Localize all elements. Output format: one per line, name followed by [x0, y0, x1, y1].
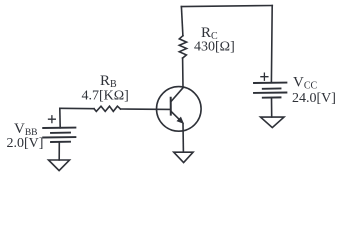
ground (Vcc)	[261, 117, 285, 128]
wire emitter to ground	[182, 124, 184, 152]
battery V_BB plate long top	[43, 127, 75, 129]
svg-text:430[Ω]: 430[Ω]	[194, 40, 235, 55]
svg-text:RB: RB	[100, 73, 117, 90]
wire base left segment from Vbb stub	[60, 107, 94, 109]
wire Vcc battery to ground	[271, 98, 273, 117]
wire base right segment to transistor	[121, 108, 157, 110]
transistor Q1 emitter diagonal with arrow	[171, 111, 181, 121]
wire right vertical to Vcc battery	[270, 6, 273, 83]
battery V_CC plate long bottom	[254, 92, 286, 94]
wire Vbb stub vertical	[59, 108, 61, 128]
battery V_CC plate long top	[254, 82, 286, 84]
ground (emitter)	[174, 152, 193, 162]
battery V_CC plate short bottom	[263, 96, 281, 98]
transistor Q1 base lead inside circle	[156, 108, 170, 110]
plus sign V_CC	[261, 73, 268, 80]
transistor Q1 base bar	[170, 98, 172, 115]
resistor R_C zigzag	[179, 36, 186, 58]
wire collector branch upper (corner to Rc)	[181, 7, 183, 36]
wire top horizontal (Vcc rail)	[181, 6, 272, 7]
ground (Vbb)	[49, 160, 70, 171]
battery V_BB plate short	[51, 132, 70, 134]
transistor Q1 circle	[157, 87, 202, 132]
battery V_CC plate short	[263, 88, 281, 90]
transistor Q1 collector diagonal	[171, 88, 183, 102]
svg-text:VCC: VCC	[293, 75, 318, 92]
wire Rc to transistor collector	[182, 58, 184, 87]
plus sign V_BB	[49, 116, 56, 123]
battery V_BB plate short bottom	[51, 141, 70, 143]
wire Vbb battery to ground	[58, 142, 60, 160]
svg-text:4.7[KΩ]: 4.7[KΩ]	[82, 89, 129, 104]
svg-text:24.0[V]: 24.0[V]	[292, 91, 336, 106]
svg-text:2.0[V]: 2.0[V]	[7, 136, 44, 151]
battery V_BB plate long bottom	[43, 136, 75, 138]
resistor R_B zigzag	[94, 106, 121, 111]
